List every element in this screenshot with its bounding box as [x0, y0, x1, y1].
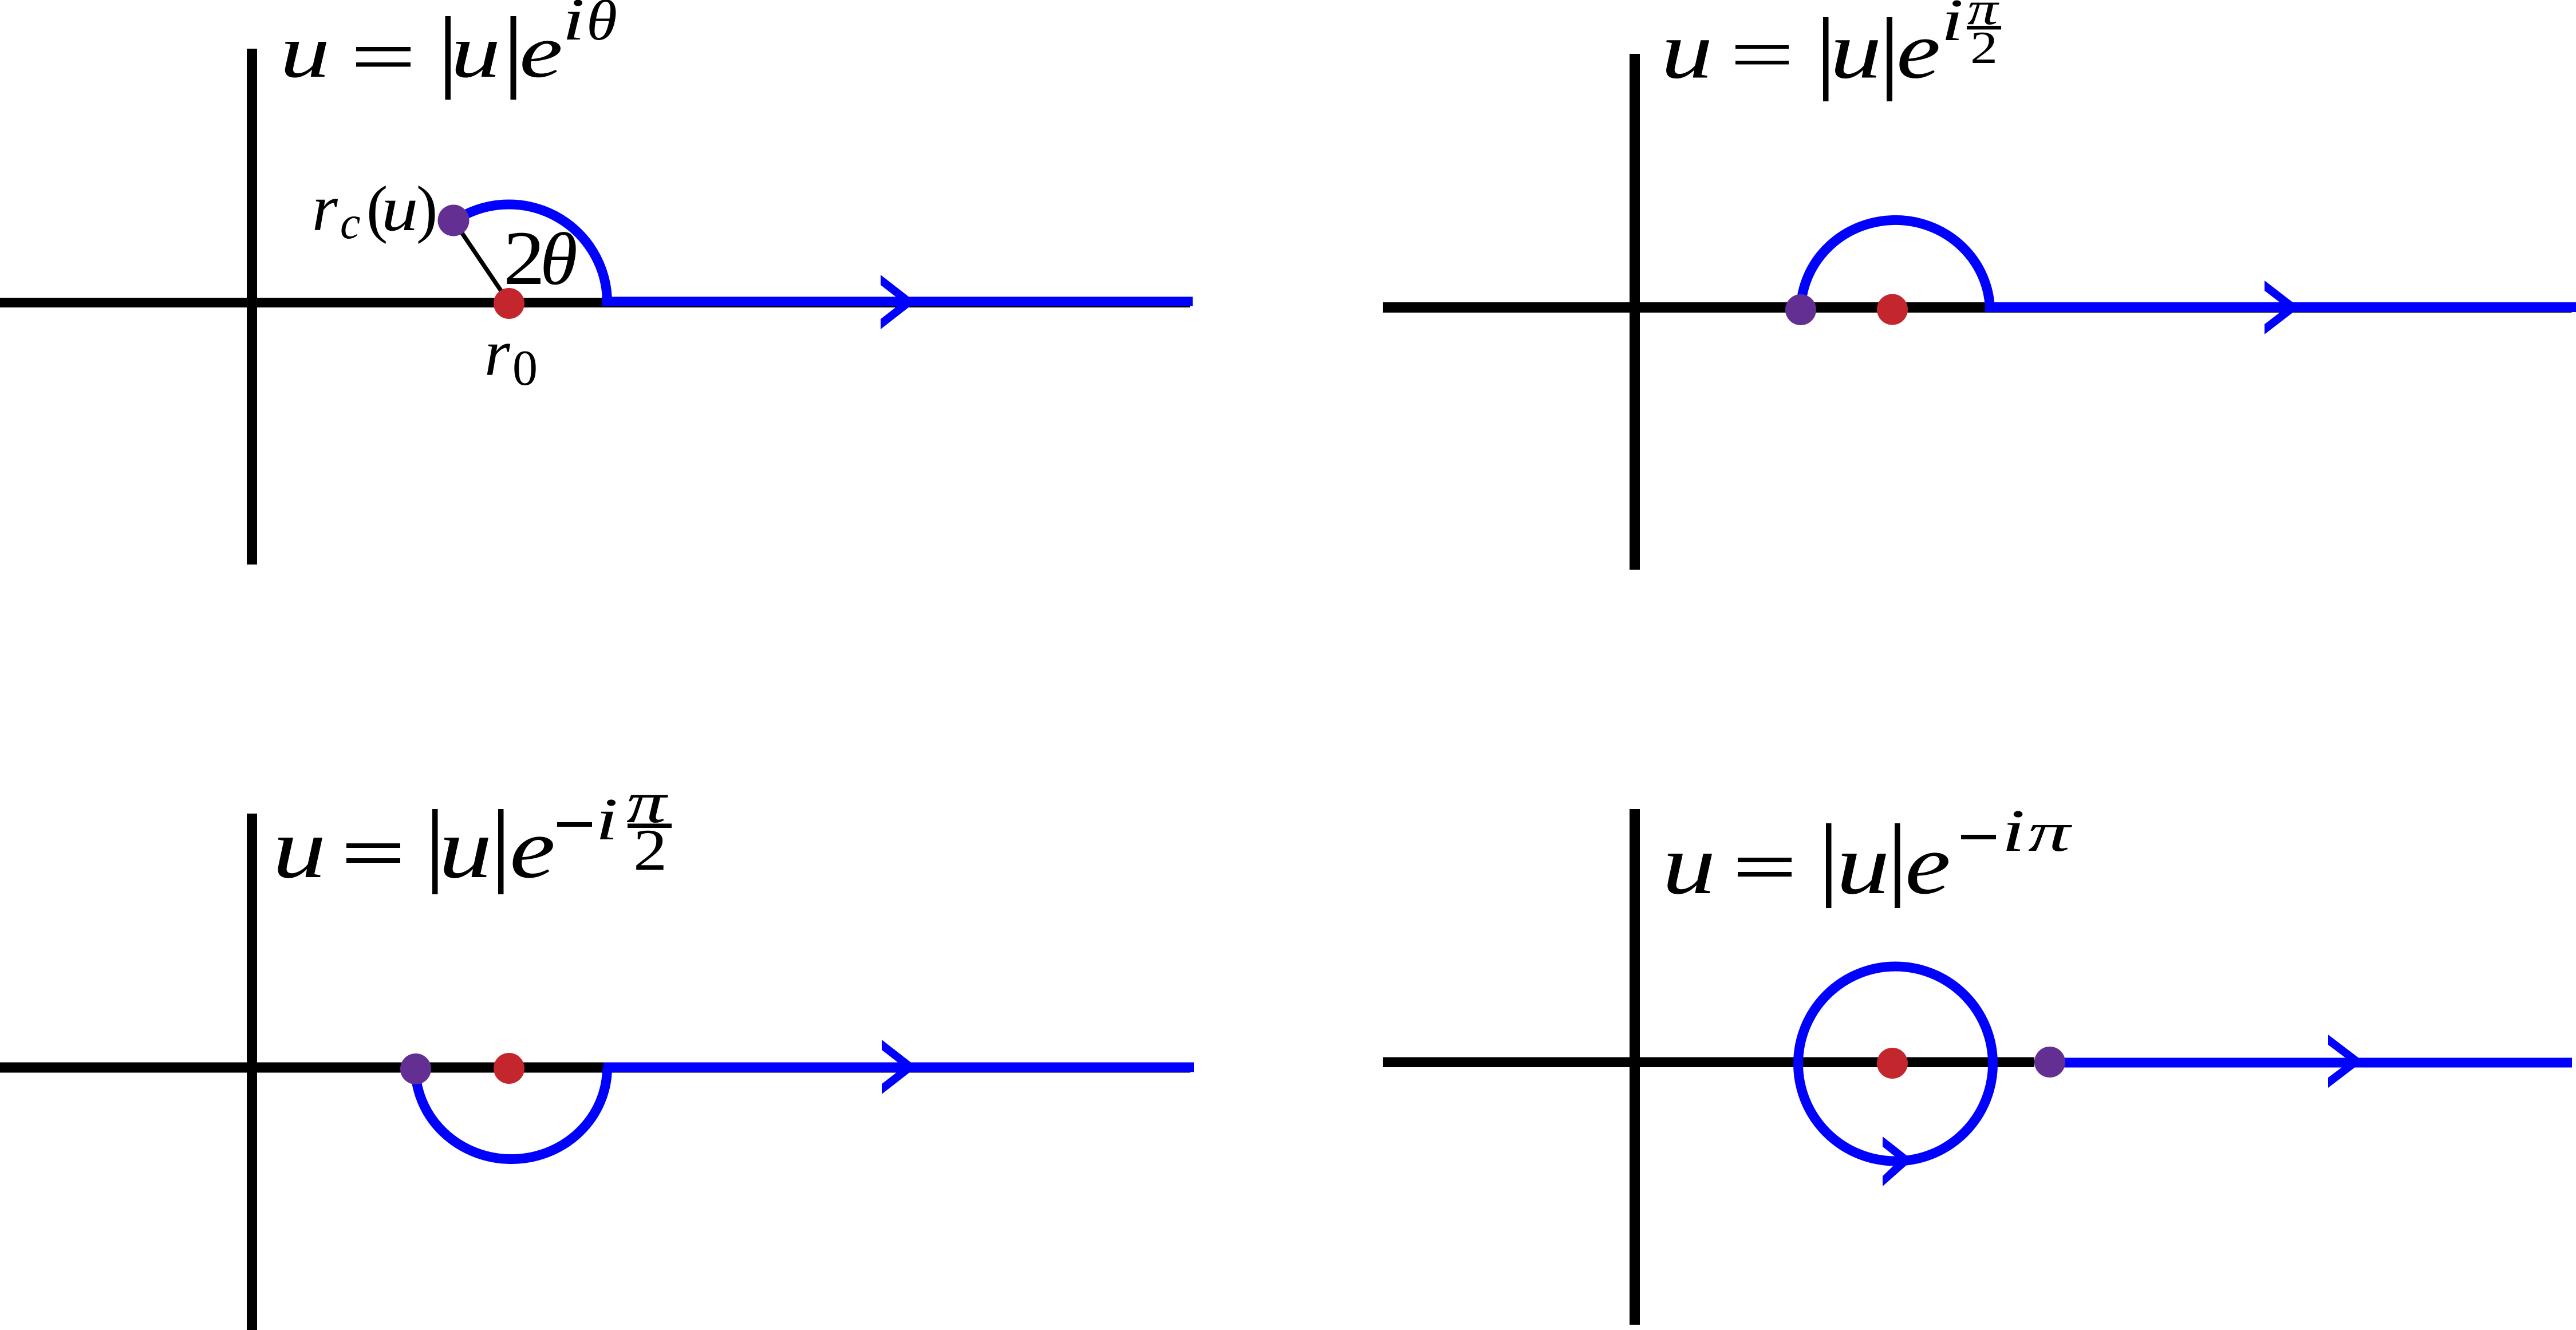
blue contour arc (lower semicircle) P3	[416, 1068, 607, 1159]
svg-text:2: 2	[633, 818, 667, 883]
branch point r0 (red dot) P3	[494, 1053, 524, 1084]
svg-text:u: u	[280, 9, 330, 93]
moving singularity rc(u) (purple dot) P1	[438, 205, 470, 236]
svg-text:θ: θ	[586, 0, 617, 52]
imaginary axis (vertical) P1	[247, 49, 257, 565]
imaginary axis (vertical) P2	[1630, 54, 1640, 570]
blue contour line P2	[1985, 302, 2576, 312]
singularity rc(u) (purple dot) P4	[2034, 1047, 2065, 1078]
blue contour arc P2	[1801, 220, 1990, 309]
blue contour circle P4	[1798, 966, 1993, 1161]
branch point r0 (red dot) P4	[1877, 1048, 1908, 1079]
svg-text:e: e	[1896, 5, 1940, 95]
label rc(u) P1	[312, 172, 437, 248]
label 2theta P1	[503, 216, 578, 301]
svg-text:u: u	[451, 9, 500, 93]
radius connector line P1	[453, 220, 509, 303]
svg-text:u: u	[1662, 817, 1716, 912]
contour direction arrow P2	[2265, 281, 2299, 334]
svg-text:r: r	[484, 317, 511, 389]
svg-text:e: e	[510, 800, 555, 896]
branch point r0 (red dot) P1	[494, 288, 524, 319]
title u = |u| e^{-i pi/2} P3	[273, 770, 672, 896]
real axis (horizontal) P2	[1383, 302, 2572, 313]
imaginary axis (vertical) P4	[1630, 809, 1640, 1325]
blue contour line P1	[602, 297, 1193, 306]
imaginary axis (vertical) P3	[247, 814, 257, 1330]
svg-text:c: c	[340, 198, 361, 248]
singularity rc(u) (purple dot) P2	[1785, 294, 1816, 325]
svg-text:e: e	[1905, 816, 1951, 912]
contour direction arrow on line P4	[2328, 1035, 2363, 1088]
real axis (horizontal) P4	[1383, 1057, 2034, 1068]
circle direction arrow P4	[1883, 1136, 1912, 1186]
real axis (horizontal) P3	[0, 1063, 1190, 1073]
svg-text:i: i	[1941, 0, 1963, 53]
title u = |u| e^{-i pi} P4	[1662, 797, 2073, 911]
svg-text:2: 2	[503, 216, 545, 301]
singularity rc(u) (purple dot) P3	[400, 1053, 431, 1084]
svg-text:π: π	[2028, 802, 2073, 863]
svg-text:i: i	[2002, 797, 2025, 864]
svg-text:θ: θ	[540, 218, 578, 301]
svg-text:i: i	[562, 0, 585, 53]
svg-text:e: e	[519, 10, 563, 94]
svg-text:r: r	[312, 172, 338, 244]
blue contour line P4	[2050, 1058, 2572, 1068]
title u = |u| e^{i theta} P1	[280, 0, 617, 100]
svg-text:u: u	[1836, 817, 1890, 912]
svg-text:u: u	[381, 173, 418, 244]
title u = |u| e^{i pi/2} P2	[1661, 0, 2001, 101]
blue contour arc P1	[453, 204, 607, 303]
label r0 P1	[484, 317, 538, 396]
contour direction arrow P1	[881, 275, 916, 329]
svg-text:u: u	[439, 801, 492, 896]
contour direction arrow P3	[882, 1040, 917, 1094]
svg-text:u: u	[1830, 6, 1882, 96]
svg-text:0: 0	[512, 341, 538, 396]
real axis (horizontal) P1	[0, 298, 1190, 307]
svg-text:u: u	[273, 801, 326, 896]
blue contour line P3	[603, 1063, 1194, 1072]
svg-text:): )	[416, 173, 437, 244]
svg-text:i: i	[595, 786, 618, 853]
branch point r0 (red dot) P2	[1877, 294, 1908, 325]
svg-text:2: 2	[1970, 22, 1998, 73]
svg-text:u: u	[1661, 6, 1713, 96]
